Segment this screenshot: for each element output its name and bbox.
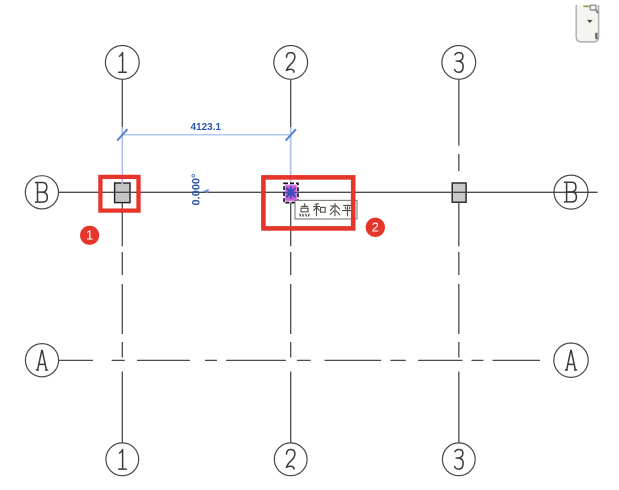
- snap marker (blue X): [286, 187, 296, 198]
- nav dropdown arrow: [587, 20, 593, 23]
- selected column at grid 2/B (magenta highlight): [284, 183, 298, 202]
- grid bubble 1 (bottom): [106, 443, 139, 476]
- dimension witness line at grid 1: [121, 127, 123, 186]
- grid line A (horizontal, dash-dot): [59, 359, 540, 361]
- grid line 2 (vertical): [290, 80, 292, 443]
- dimension line: [121, 134, 292, 136]
- glyph 水: [330, 204, 340, 216]
- grid bubble A (right): [554, 343, 588, 377]
- glyph 点: [300, 204, 309, 216]
- nav icon: magnifier fragment: [590, 5, 598, 13]
- grid line B (horizontal): [59, 191, 598, 193]
- grid bubble 2 (bottom): [274, 443, 307, 476]
- grid bubble 2 (top): [274, 46, 308, 80]
- angle drag arrow: [203, 189, 208, 194]
- column at grid 3/B: [452, 183, 466, 202]
- column at grid 1/B: [115, 183, 130, 203]
- grid bubble 1 (top): [105, 46, 139, 80]
- dimension witness line at grid 2: [290, 127, 292, 190]
- dimension tick right: [286, 129, 296, 140]
- dimension tick left: [117, 129, 127, 140]
- red highlight rectangle 1: [100, 177, 138, 211]
- glyph 平: [343, 205, 353, 216]
- svg-text:1: 1: [86, 228, 93, 243]
- grid line 3 (vertical): [458, 79, 460, 442]
- svg-text:4123.1: 4123.1: [191, 122, 222, 133]
- grid bubble A (left): [25, 344, 58, 377]
- red badge 1: [80, 226, 99, 245]
- red badge 2: [366, 218, 385, 237]
- red highlight rectangle 2: [263, 177, 353, 228]
- grid line 1 (vertical): [121, 79, 123, 442]
- tooltip text 点和 水平 (drawn glyphs): [300, 204, 353, 216]
- navigation bar panel (top right UI fragment): [576, 5, 598, 42]
- nav icon: olive dash: [583, 6, 589, 8]
- grid bubble B (right): [554, 175, 588, 209]
- grid bubble 3 (top): [442, 46, 476, 80]
- svg-text:0.000°: 0.000°: [190, 174, 202, 206]
- grid bubble B (left): [25, 176, 58, 209]
- grid bubble 3 (bottom): [442, 443, 475, 476]
- svg-text:2: 2: [372, 220, 379, 235]
- tooltip box: [295, 200, 357, 219]
- glyph 和: [314, 204, 326, 216]
